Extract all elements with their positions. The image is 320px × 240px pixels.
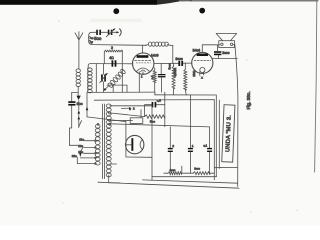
svg-text:1ooo: 1ooo — [194, 167, 200, 171]
wire variometer box left — [112, 85, 114, 92]
wire chassis bottom line — [98, 182, 239, 188]
svg-text:8oo: 8oo — [77, 102, 83, 106]
resistor 0,5 megohm grid leak — [172, 63, 175, 94]
ground earth arrow — [76, 96, 80, 100]
wire tap 110 — [84, 140, 95, 142]
wire speaker right rail — [233, 45, 238, 187]
wire filter box bottom — [152, 176, 216, 178]
inductor L2 secondary coil — [88, 68, 93, 93]
tube V2 B406 output — [192, 52, 213, 73]
wire bias arrow — [121, 107, 131, 109]
svg-text:B4o6: B4o6 — [193, 48, 201, 52]
capacitor filter 2mf — [168, 127, 173, 172]
wire tap 220 — [80, 157, 95, 159]
resistor 1000 — [193, 172, 214, 175]
svg-text:2: 2 — [111, 46, 113, 50]
switch wave-change contacts — [78, 101, 82, 128]
svg-text:3ooo: 3ooo — [175, 57, 183, 61]
resistor 2 megohm — [184, 63, 187, 95]
svg-text:4Ω: 4Ω — [109, 56, 114, 60]
switch bias box — [130, 110, 143, 124]
wire inner right edge — [218, 100, 220, 169]
svg-text:5oo: 5oo — [94, 36, 102, 41]
wire anode rail — [141, 45, 143, 53]
tube V1 A409 triode — [133, 53, 154, 74]
svg-text:5oo: 5oo — [150, 119, 155, 123]
wire tuning frame left — [95, 64, 97, 93]
svg-text:gr: gr — [91, 41, 93, 44]
wire mains lead left — [69, 106, 78, 146]
speaker horn — [216, 34, 236, 48]
svg-text:o,5: o,5 — [157, 99, 161, 103]
tube rectifier — [126, 135, 144, 153]
node antenna plug — [116, 29, 121, 36]
wire chassis top rail y100 — [94, 100, 214, 180]
wire HT rail — [110, 124, 210, 127]
capacitor 500 — [96, 30, 107, 35]
node primary top terminal — [97, 123, 99, 125]
wire coupling box outline — [89, 32, 147, 45]
wire secondary lower stub — [110, 163, 117, 165]
svg-text:5ooo: 5ooo — [167, 63, 171, 70]
wire antenna lead — [78, 40, 80, 69]
wire L2 left side — [87, 68, 89, 92]
label UNDA MU 3 box — [222, 105, 235, 162]
capacitor 3000 coupling — [178, 61, 183, 66]
switch voltage selector arrow — [79, 153, 82, 157]
capacitor filter 1mf — [188, 95, 193, 173]
svg-text:o,5MΩ: o,5MΩ — [173, 67, 177, 76]
svg-text:3ooo: 3ooo — [222, 51, 229, 55]
wire tuning frame right — [121, 50, 123, 92]
wire to series capacitor — [72, 92, 79, 101]
wire tap to bias box — [111, 120, 133, 122]
capacitor trimmer CV — [106, 29, 118, 37]
wire L1 bottom lead — [77, 86, 79, 95]
svg-text:22o: 22o — [72, 154, 77, 158]
wire tap 120 — [84, 147, 96, 149]
inductor coil 2 sawtooth — [104, 50, 122, 64]
svg-text:A4o9: A4o9 — [151, 53, 159, 57]
node terminal a — [89, 37, 91, 39]
wire secondary top stub — [110, 105, 124, 107]
capacitor 0,5 shunt — [145, 102, 165, 117]
transformer primary winding — [95, 125, 100, 166]
wire V2 cathode leads — [200, 72, 204, 76]
svg-text:4ooo: 4ooo — [170, 168, 176, 172]
wire V2 grid exit — [212, 55, 218, 58]
node terminal g — [89, 40, 91, 42]
capacitor 800 series antenna — [68, 101, 75, 105]
capacitor tuning variable C1 — [100, 73, 108, 83]
inductor variometer diagonal coil — [107, 69, 126, 88]
wire chassis middle bottom line — [143, 180, 238, 183]
wire V2 anode top lead — [202, 45, 219, 53]
transformer secondary winding — [106, 104, 111, 177]
capacitor 3000 speaker shunt — [214, 45, 221, 55]
wire rectifier filament loop — [126, 122, 152, 158]
wire variometer to cathode rail — [107, 85, 127, 92]
svg-text:o,1: o,1 — [203, 144, 207, 148]
wire C1 leads — [103, 64, 105, 93]
wire pot node vertical — [164, 92, 166, 127]
node primary taps — [95, 140, 97, 165]
wire rectifier anode lead — [126, 144, 131, 146]
wire choke to R2 node — [170, 45, 173, 63]
wire centre tap to pot — [111, 113, 145, 117]
resistor 500 potentiometer — [145, 115, 165, 118]
svg-text:Fig. 38o.: Fig. 38o. — [246, 91, 251, 109]
inductor L1 antenna coil — [76, 69, 80, 87]
capacitor 5000 bypass — [158, 64, 166, 93]
wire to V2 grid — [183, 62, 192, 64]
wire grid rail with corner to L2 — [88, 64, 133, 68]
wire tap bottom — [77, 157, 95, 163]
capacitor filter 0,1 — [207, 127, 212, 173]
resistor 4000 — [164, 172, 182, 175]
svg-text:o,1: o,1 — [150, 75, 154, 80]
wire variometer arrow — [104, 86, 109, 91]
wire filter box left edge — [151, 106, 153, 180]
wire V1 filament leads — [139, 72, 143, 92]
inductor HF choke — [145, 42, 170, 46]
wire plate wire y63 — [154, 62, 178, 64]
node secondary taps — [109, 112, 111, 125]
wire earth lead to rectifier return — [86, 92, 126, 121]
transformer core — [103, 104, 105, 179]
wire label column bottom — [214, 166, 237, 168]
wire secondary top to HT — [124, 105, 152, 107]
wire rail y95 — [155, 95, 217, 177]
capacitor grid condenser — [112, 60, 117, 66]
wire cathode rail y92 — [88, 91, 155, 93]
wire tap 150 — [84, 152, 96, 154]
antenna — [75, 32, 83, 40]
wire anode junction to right rail — [218, 57, 237, 59]
resistor filament rheostat — [153, 68, 156, 95]
wire transformer bottom lead — [109, 175, 120, 183]
wire junction lead — [182, 166, 194, 173]
